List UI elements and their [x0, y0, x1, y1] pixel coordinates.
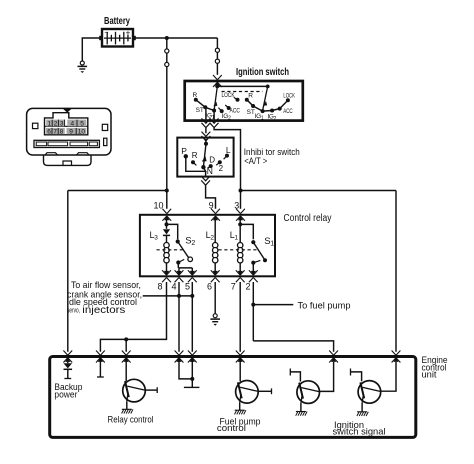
- wire power rail left segment: [68, 190, 167, 192]
- svg-text:ACC: ACC: [230, 108, 241, 115]
- wire pin 2 jog to engine unit: [253, 341, 333, 352]
- wire relay control base: [125, 359, 127, 382]
- wire stub entry 2: [99, 359, 101, 378]
- inhibitor wiper: [203, 144, 206, 167]
- wire IG1 jog to pin3 column: [214, 128, 240, 191]
- coil L1: [238, 243, 243, 263]
- connector entry ignition switch top: [213, 75, 222, 80]
- connector illustration (control relay connector): [27, 108, 111, 165]
- diode D1 (in relay): [163, 229, 170, 235]
- Q1 collector lead: [145, 389, 157, 391]
- wire fuel pump control base: [239, 359, 241, 382]
- transistor Q4 ignition switch signal: [358, 381, 381, 404]
- svg-text:4: 4: [172, 282, 177, 292]
- wire pin4 inside jog: [179, 359, 192, 379]
- Q4 collector to IG entry: [381, 362, 396, 391]
- inhibitor feed: [205, 139, 207, 144]
- connector inline C3: [215, 48, 219, 52]
- Q2 emitter wire: [239, 402, 241, 410]
- engine unit label: [422, 355, 448, 381]
- Q3 base open terminal: [289, 369, 291, 376]
- node fuel pump tap: [251, 303, 255, 307]
- wire IG drop to engine unit: [395, 191, 397, 352]
- wire L3 to pin 8: [166, 263, 168, 275]
- svg-text:injectors: injectors: [82, 304, 125, 316]
- svg-text:6: 6: [47, 129, 51, 136]
- switch S2 blade: [178, 242, 189, 258]
- svg-text:5: 5: [80, 121, 84, 128]
- svg-text:2: 2: [246, 282, 251, 292]
- switch S2 open circle: [188, 257, 193, 262]
- connector pin 5: [188, 270, 197, 275]
- Q4 emitter wire: [361, 403, 363, 412]
- switch S2 top contact: [176, 239, 180, 243]
- ground G1 (battery): [78, 61, 88, 73]
- label Ignition switch signal: [333, 420, 386, 438]
- Q2 collector lead: [258, 390, 271, 392]
- svg-text:2: 2: [54, 121, 58, 128]
- svg-text:2: 2: [219, 164, 224, 173]
- switch S1 blade end dot: [263, 258, 267, 262]
- svg-text:6: 6: [207, 282, 212, 292]
- ignition right contact chain: [247, 100, 288, 111]
- wire pin 2 down: [252, 282, 254, 341]
- contact R inhibitor: [191, 160, 195, 164]
- node sensors-pin4: [177, 294, 181, 298]
- connector engine entry pin5: [188, 351, 197, 356]
- svg-text:R: R: [248, 93, 253, 100]
- wire tap to S1: [240, 224, 253, 239]
- connector engine entry pin2: [329, 351, 338, 356]
- svg-text:LOCK: LOCK: [283, 92, 295, 99]
- wire pin 6 to ground: [214, 282, 216, 314]
- svg-text:N: N: [207, 166, 213, 176]
- contact ST right: [251, 104, 255, 108]
- Q4 base open terminal: [350, 369, 352, 376]
- wire ignition internal feed bus: [217, 83, 267, 86]
- ignition wiper right: [263, 86, 268, 109]
- wire S2 to pins 4 and 5: [178, 263, 192, 275]
- connector inhibitor exit: [201, 176, 210, 181]
- ground Q2: [235, 410, 246, 414]
- svg-text:9: 9: [69, 129, 73, 136]
- svg-text:1: 1: [48, 121, 52, 128]
- svg-text:D: D: [209, 156, 215, 165]
- svg-text:+: +: [126, 29, 131, 38]
- connector engine entry pin4: [175, 351, 184, 356]
- node S2 tap: [165, 222, 169, 226]
- svg-text:power: power: [54, 389, 77, 399]
- wire L3 branch feed: [166, 217, 168, 229]
- wire diode to open end: [67, 370, 69, 379]
- connector inline C1: [165, 49, 169, 53]
- mechanical link dashed (ignition): [222, 91, 263, 93]
- diode D2 (backup power): [64, 363, 73, 369]
- transistor Q3: [297, 381, 320, 404]
- svg-text:R: R: [192, 151, 198, 160]
- node pins45 join: [190, 377, 194, 381]
- svg-text:unit: unit: [422, 370, 437, 381]
- svg-text:Battery: Battery: [104, 16, 130, 27]
- node ign bus right: [266, 85, 270, 89]
- contact R left: [194, 98, 198, 102]
- battery B1: [99, 29, 136, 47]
- connector ignition bottom left: [202, 118, 211, 123]
- connector engine entry backup power: [63, 351, 72, 356]
- connector pin 3: [236, 209, 245, 214]
- switch S1 lower contact: [251, 261, 255, 265]
- node ign bus left: [215, 85, 219, 89]
- terminal bar pins 4-5: [184, 386, 200, 388]
- svg-text:<A/T >: <A/T >: [244, 156, 267, 166]
- node battery bus tap left: [165, 189, 169, 193]
- wire ignition switch feed: [216, 38, 218, 48]
- Q3 emitter wire: [300, 403, 302, 412]
- wire P to N to output: [186, 156, 206, 176]
- coil L2: [213, 243, 218, 263]
- contact IG2 right: [270, 109, 274, 113]
- contact P: [184, 154, 188, 158]
- contact N: [201, 165, 205, 169]
- svg-text:7: 7: [53, 129, 57, 136]
- contact ST left: [203, 105, 207, 109]
- ground Q1: [122, 409, 133, 413]
- S1 lower tick: [253, 260, 260, 262]
- svg-text:−: −: [104, 30, 108, 37]
- wire pin 4 to engine unit: [178, 282, 180, 352]
- svg-text:servo,: servo,: [67, 308, 80, 315]
- wire L2 to pin 6: [214, 263, 216, 275]
- wire pin 7 to engine unit: [239, 282, 241, 352]
- connector pin 9: [211, 209, 220, 214]
- ground Q4: [357, 412, 368, 416]
- wire ST to inhibitor: [205, 128, 207, 133]
- wire battery positive bus: [133, 37, 217, 39]
- node battery junction: [165, 36, 169, 40]
- contact D inhibitor: [209, 164, 213, 168]
- svg-text:L: L: [226, 145, 231, 155]
- contact 2 inhibitor: [218, 160, 222, 164]
- svg-text:5: 5: [185, 282, 190, 292]
- wire pin 5 to engine unit: [191, 282, 193, 352]
- contact IG1 right: [261, 109, 265, 113]
- ignition left contact chain R-ST-IG1: [196, 100, 214, 111]
- wire IG1 output: [213, 111, 215, 120]
- svg-text:3: 3: [60, 121, 64, 128]
- wire S1 to pin 2: [252, 263, 254, 275]
- connector inhibitor entry: [202, 132, 211, 137]
- connector inline C2: [165, 62, 169, 66]
- switch S1 blade: [253, 242, 264, 260]
- wire battery drop to control relay pin 10: [166, 38, 168, 49]
- svg-text:ST: ST: [196, 107, 204, 114]
- ignition wiper left: [214, 86, 217, 109]
- wire backup power drop: [67, 191, 69, 352]
- contact IG2 left: [220, 109, 224, 113]
- connector engine entry stub: [96, 351, 105, 356]
- svg-text:R: R: [193, 92, 198, 99]
- wire pin 8 down and jog left: [100, 282, 166, 352]
- node inhibitor top: [204, 142, 208, 146]
- svg-text:10: 10: [154, 201, 164, 211]
- svg-text:Relay control: Relay control: [108, 415, 154, 426]
- ignition switch box SW1: [185, 81, 303, 121]
- svg-text:8: 8: [60, 129, 64, 136]
- wire power rail right segment: [241, 190, 397, 192]
- node S1 tap: [238, 222, 242, 226]
- connector engine entry IG signal: [392, 351, 401, 356]
- wire L1 to pin 7: [239, 263, 241, 275]
- wire to fuel pump stub: [253, 304, 293, 306]
- svg-text:To fuel pump: To fuel pump: [298, 300, 351, 310]
- connector pin 8: [162, 270, 171, 275]
- connector engine entry relay control base: [122, 351, 131, 356]
- S2 lower tick: [178, 259, 184, 262]
- ground Q3: [296, 412, 307, 416]
- connector pin 7: [236, 270, 245, 275]
- svg-text:switch signal: switch signal: [333, 427, 386, 438]
- wire pin3 drop: [240, 191, 242, 209]
- control relay box K1: [140, 215, 275, 276]
- svg-text:control: control: [217, 423, 246, 434]
- wire battery negative to ground: [82, 38, 102, 61]
- Q1 emitter wire: [126, 401, 128, 409]
- wire to sensors: [143, 295, 193, 297]
- mechanical link L3-S2 dashed: [157, 249, 184, 251]
- wire tap to S2: [167, 224, 178, 239]
- wire L2 branch: [214, 217, 216, 244]
- transistor Q1 relay control: [123, 379, 146, 402]
- mechanical link L2-L1-S1 dashed: [219, 249, 259, 251]
- connector ignition bottom right: [210, 118, 219, 123]
- Q3 collector to pin2 entry: [320, 362, 334, 391]
- wire ST output (to inhibitor switch): [205, 108, 207, 120]
- contact LOCK right: [286, 98, 290, 102]
- contact LOCK left: [236, 98, 240, 102]
- Q4 base lead: [351, 372, 362, 381]
- Q3 base lead: [290, 372, 300, 382]
- wire L1 branch: [239, 217, 241, 244]
- switch S1 top contact: [251, 240, 255, 244]
- svg-text:Control relay: Control relay: [284, 213, 332, 224]
- node sensors-pin5: [190, 294, 194, 298]
- ground G2 (relay pin 6): [210, 314, 220, 326]
- svg-text:10: 10: [78, 129, 86, 136]
- svg-text:ACC: ACC: [283, 108, 293, 115]
- contact ACC left: [227, 106, 231, 110]
- svg-text:Ignition switch: Ignition switch: [236, 66, 289, 78]
- contact L inhibitor: [225, 154, 229, 158]
- wire tap to relay-control transistor: [125, 339, 127, 351]
- svg-text:8: 8: [158, 282, 163, 292]
- wire pin5 inside to terminal: [191, 359, 193, 388]
- inhibitor switch box SW2: [177, 138, 233, 177]
- connector pin 2: [249, 270, 258, 275]
- transistor Q2 fuel pump control: [236, 381, 259, 404]
- label Fuel pump control: [217, 417, 261, 435]
- node IG line tap: [239, 189, 243, 193]
- label to air flow sensor (multiline): [67, 280, 142, 316]
- wire diode to coil: [166, 236, 168, 243]
- connector pin 6: [211, 270, 220, 275]
- contact ACC right: [278, 107, 282, 111]
- label Backup power: [54, 382, 82, 399]
- connector pin 4: [175, 270, 184, 275]
- connector pin 10: [162, 209, 171, 214]
- switch S2 lower contact: [176, 260, 180, 264]
- wire inhibitor output to relay pin 9: [206, 185, 216, 209]
- engine control unit box: [50, 357, 416, 438]
- node backup stub tap: [124, 337, 128, 341]
- svg-text:LOCK: LOCK: [222, 92, 235, 99]
- contact R right: [245, 98, 249, 102]
- svg-text:7: 7: [231, 282, 236, 292]
- wire backup power entry: [67, 359, 69, 364]
- svg-text:4: 4: [71, 121, 75, 128]
- contact IG1 left: [212, 109, 216, 113]
- connector inline C4: [215, 59, 219, 63]
- connector engine entry pin7: [236, 351, 245, 356]
- svg-text:P: P: [181, 146, 187, 156]
- coil L3: [164, 243, 169, 263]
